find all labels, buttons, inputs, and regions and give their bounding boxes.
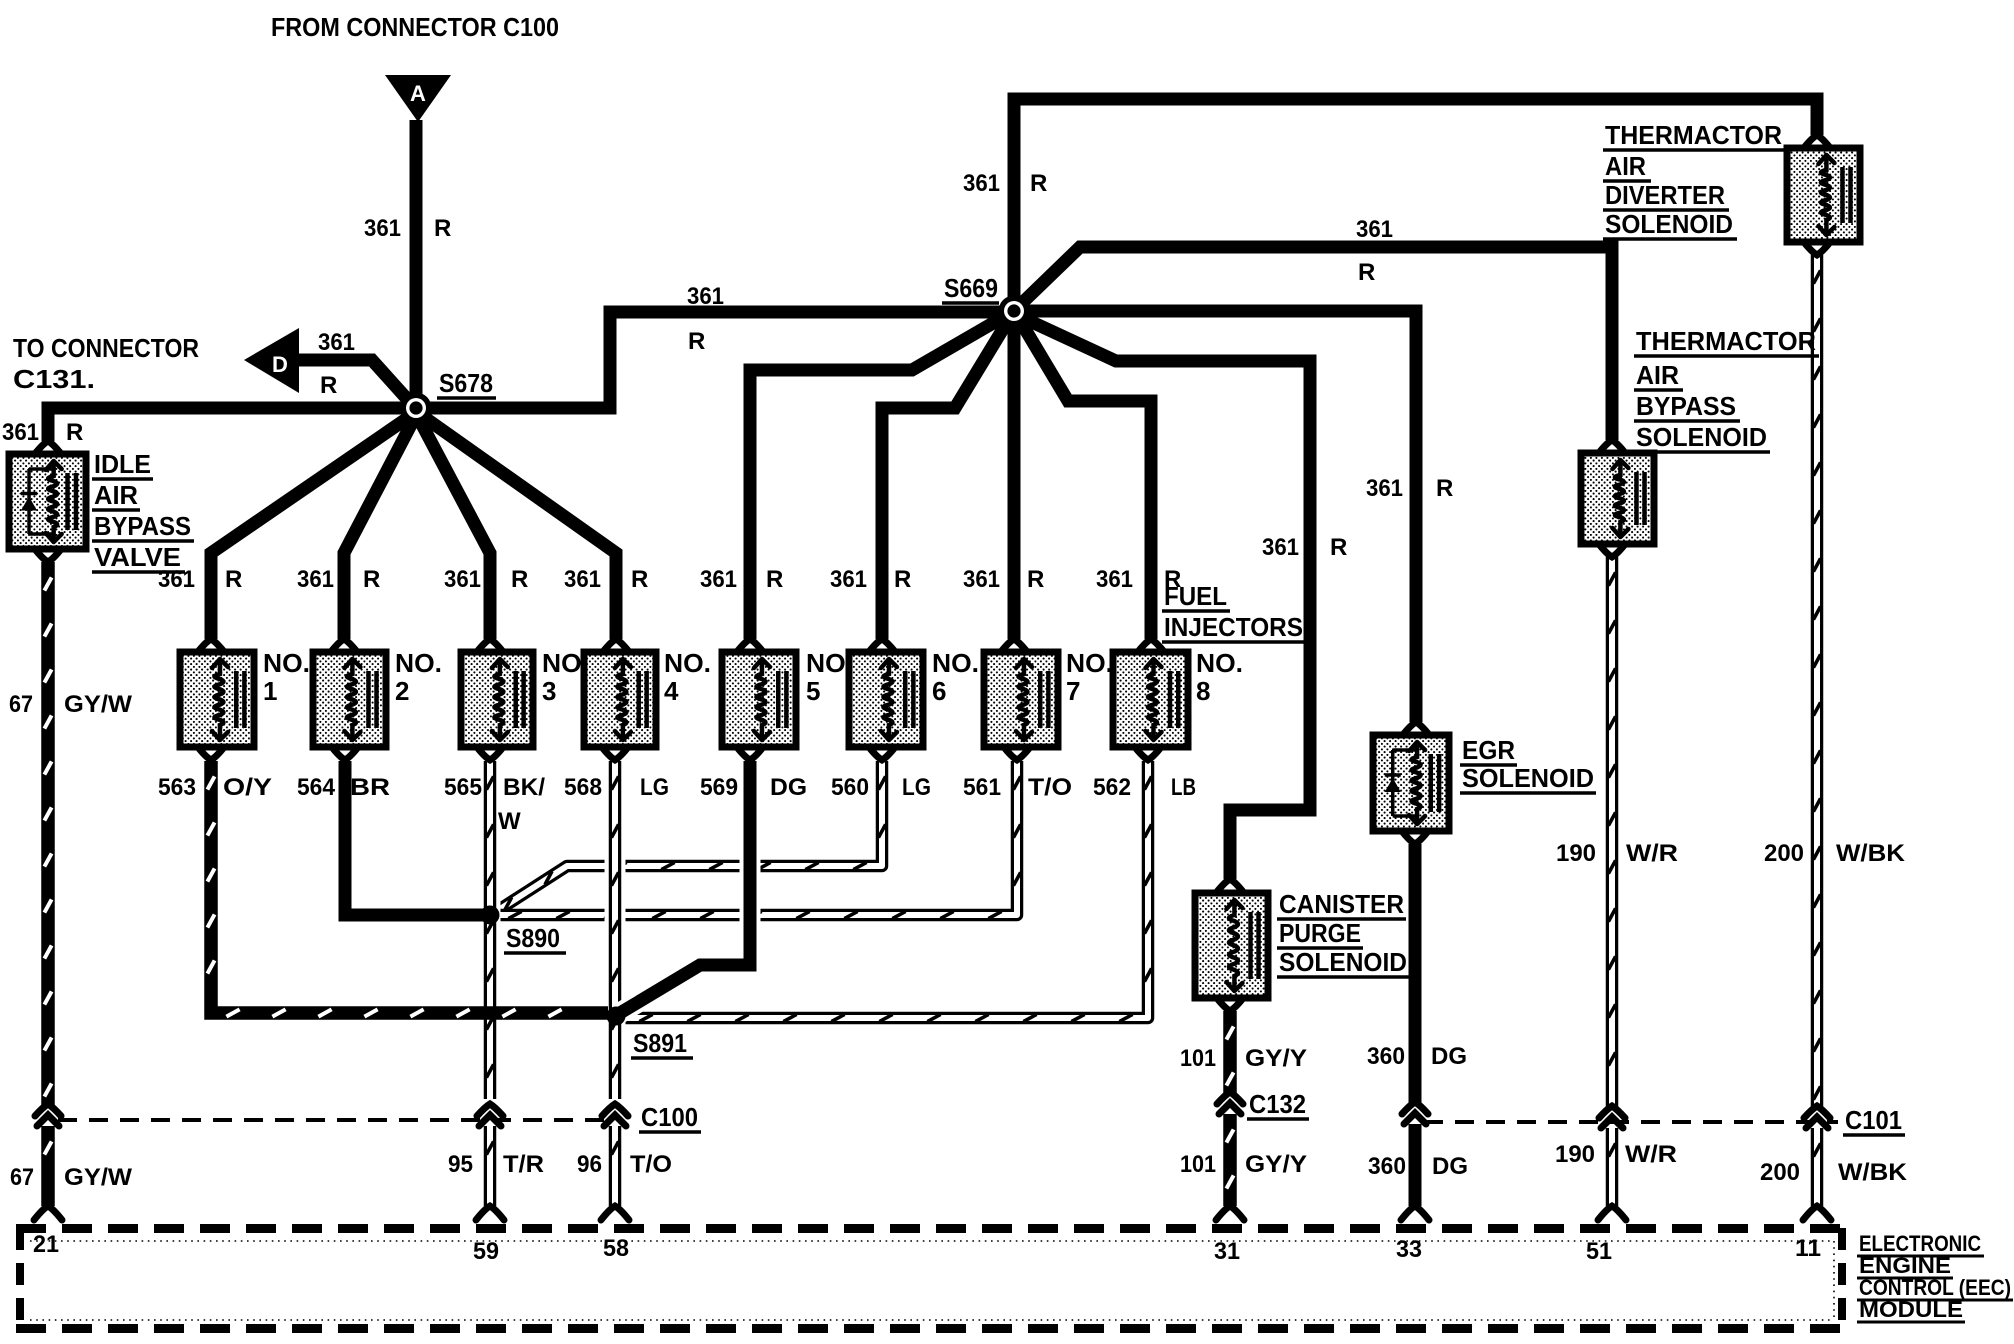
svg-text:T/O: T/O — [1028, 774, 1072, 801]
connector symbol below injector 8 — [1134, 746, 1162, 760]
svg-text:THERMACTOR: THERMACTOR — [1636, 326, 1816, 356]
svg-text:BR: BR — [350, 774, 390, 801]
connector C101 junction on wire 190 — [1599, 1106, 1625, 1118]
svg-text:SOLENOID: SOLENOID — [1605, 209, 1733, 239]
svg-text:361: 361 — [2, 419, 39, 446]
svg-text:NO.: NO. — [1066, 648, 1113, 678]
svg-text:AIR: AIR — [1636, 360, 1679, 390]
svg-text:S678: S678 — [439, 368, 493, 398]
svg-text:95: 95 — [448, 1151, 473, 1178]
svg-text:C100: C100 — [641, 1102, 698, 1132]
svg-text:R: R — [766, 566, 783, 593]
connector symbol at idle air bypass valve top — [34, 441, 62, 455]
svg-text:LG: LG — [902, 774, 931, 801]
svg-text:67: 67 — [9, 691, 33, 718]
svg-text:R: R — [894, 566, 911, 593]
svg-text:SOLENOID: SOLENOID — [1462, 763, 1594, 793]
connector symbol below injector 3 — [476, 746, 504, 760]
svg-text:W/BK: W/BK — [1836, 840, 1906, 867]
wire 67 GY/W below connector C100 to EEC pin 21 — [41, 1126, 55, 1206]
wire 200 W/BK below connector C101 to EEC pin 11 — [1811, 1128, 1824, 1206]
wire 361 R feed to injector 3 — [419, 419, 490, 639]
connector symbol below canister purge solenoid — [1216, 997, 1244, 1011]
canister purge solenoid — [1195, 893, 1268, 998]
connector symbol wire 95 into EEC — [476, 1206, 504, 1220]
connector symbol at thermactor air diverter solenoid top — [1803, 135, 1831, 149]
svg-text:IDLE: IDLE — [94, 449, 151, 479]
svg-text:569: 569 — [700, 774, 738, 801]
svg-text:R: R — [1358, 259, 1375, 286]
fuel injector NO.4 — [584, 652, 656, 747]
svg-text:NO.: NO. — [806, 648, 853, 678]
svg-text:GY/W: GY/W — [64, 691, 132, 718]
connector C101 dashed boundary line — [1424, 1120, 1838, 1124]
connector C101 junction on wire 200 — [1804, 1106, 1830, 1118]
svg-text:3: 3 — [542, 676, 556, 706]
fuel injector NO.8 — [1113, 652, 1188, 747]
svg-text:361: 361 — [364, 215, 401, 242]
connector symbol below EGR solenoid — [1401, 830, 1429, 844]
svg-text:S669: S669 — [944, 273, 998, 303]
svg-text:R: R — [434, 215, 451, 242]
svg-text:51: 51 — [1586, 1238, 1612, 1265]
svg-text:8: 8 — [1196, 676, 1210, 706]
connector symbol at injector 8 top — [1137, 639, 1165, 653]
svg-text:96: 96 — [577, 1151, 602, 1178]
wire 561 T/O from injector 7 to splice S890 — [496, 761, 1017, 915]
svg-text:67: 67 — [10, 1164, 34, 1191]
svg-text:SOLENOID: SOLENOID — [1636, 422, 1767, 452]
svg-text:DG: DG — [1431, 1043, 1467, 1070]
svg-text:S891: S891 — [633, 1028, 687, 1058]
svg-text:INJECTORS: INJECTORS — [1164, 612, 1303, 642]
electronic engine control EEC module box — [16, 1224, 1846, 1233]
connector symbol wire 360 into EEC — [1401, 1206, 1429, 1220]
svg-text:W/R: W/R — [1626, 840, 1678, 867]
svg-text:560: 560 — [831, 774, 869, 801]
fuel injector NO.5 — [722, 652, 796, 747]
svg-text:LG: LG — [640, 774, 669, 801]
svg-text:TO CONNECTOR: TO CONNECTOR — [13, 333, 199, 363]
connector C101 junction on wire 360 — [1402, 1102, 1428, 1114]
connector C132 junction on wire 101 — [1217, 1092, 1243, 1104]
svg-text:FROM CONNECTOR C100: FROM CONNECTOR C100 — [271, 12, 559, 42]
connector symbol at EGR solenoid top — [1402, 722, 1430, 736]
connector C100 junction on wire 96 — [602, 1104, 628, 1116]
svg-text:5: 5 — [806, 676, 820, 706]
connector symbol at injector 7 top — [1000, 639, 1028, 653]
wire 96 T/O below connector C100 to EEC pin 58 — [609, 1126, 622, 1206]
svg-text:W/BK: W/BK — [1838, 1159, 1908, 1186]
fuel injector NO.7 — [984, 652, 1058, 747]
connector symbol below injector 1 — [197, 746, 225, 760]
wire 361 R from splice S678 left to idle air bypass valve — [48, 408, 416, 441]
wire 95 T/R below connector C100 to EEC pin 59 — [484, 1126, 497, 1206]
wire 200 W/BK from thermactor air diverter solenoid to connector C101 — [1811, 255, 1824, 1108]
svg-text:361: 361 — [1356, 216, 1393, 243]
svg-text:GY/Y: GY/Y — [1245, 1151, 1307, 1178]
svg-text:BYPASS: BYPASS — [1636, 391, 1736, 421]
connector symbol at injector 2 top — [330, 639, 358, 653]
connector symbol below injector 4 — [601, 746, 629, 760]
connector symbol at injector 1 top — [197, 639, 225, 653]
svg-text:59: 59 — [473, 1238, 499, 1265]
connector symbol wire 190 into EEC — [1598, 1206, 1626, 1220]
svg-text:DG: DG — [770, 774, 807, 801]
svg-text:7: 7 — [1066, 676, 1080, 706]
connector symbol wire 67 into EEC — [34, 1206, 62, 1220]
connector D to connector C131 — [244, 328, 299, 393]
svg-text:11: 11 — [1795, 1235, 1821, 1262]
wire 361 R from connector A down to splice S678 — [410, 120, 423, 408]
svg-text:BK/: BK/ — [503, 774, 545, 801]
svg-text:561: 561 — [963, 774, 1001, 801]
connector C100 junction on wire 67 — [35, 1104, 61, 1116]
connector symbol below injector 5 — [736, 746, 764, 760]
svg-text:R: R — [225, 566, 242, 593]
connector symbol below idle air bypass valve — [34, 548, 62, 562]
svg-text:361: 361 — [297, 566, 334, 593]
svg-text:R: R — [363, 566, 380, 593]
wire 560 LG from injector 6 to splice S890 — [494, 761, 882, 913]
connector symbol below thermactor air diverter solenoid — [1803, 241, 1831, 255]
svg-text:564: 564 — [297, 774, 336, 801]
splice S891 junction dot — [607, 1007, 626, 1026]
wire 361 R feed to injector 6 — [882, 319, 1009, 639]
svg-text:PURGE: PURGE — [1279, 918, 1361, 948]
svg-text:1: 1 — [263, 676, 277, 706]
svg-text:R: R — [511, 566, 528, 593]
svg-text:360: 360 — [1367, 1043, 1405, 1070]
svg-text:101: 101 — [1180, 1045, 1216, 1072]
wire 360 DG below connector C101 to EEC pin 33 — [1409, 1124, 1422, 1206]
connector C100 dashed boundary line — [58, 1118, 612, 1122]
wire 564 BR from injector 2 to splice S890 — [345, 761, 484, 915]
svg-text:190: 190 — [1555, 1141, 1595, 1168]
svg-text:361: 361 — [318, 329, 355, 356]
svg-text:NO.: NO. — [1196, 648, 1243, 678]
svg-text:W/R: W/R — [1625, 1141, 1677, 1168]
wire 361 R linking splice S678 to splice S669 — [416, 312, 1014, 408]
wire 190 W/R below connector C101 to EEC pin 51 — [1606, 1128, 1619, 1206]
svg-text:361: 361 — [687, 283, 724, 310]
fuel injector NO.1 — [180, 652, 254, 747]
svg-text:31: 31 — [1214, 1238, 1240, 1265]
wire 190 W/R from thermactor air bypass solenoid to connector C101 — [1606, 557, 1619, 1108]
idle air bypass valve — [9, 454, 86, 549]
svg-text:NO.: NO. — [263, 648, 310, 678]
svg-text:33: 33 — [1396, 1236, 1422, 1263]
svg-text:AIR: AIR — [94, 480, 138, 510]
svg-text:C132: C132 — [1249, 1089, 1306, 1119]
svg-text:FUEL: FUEL — [1164, 581, 1227, 611]
wire 361 R from splice S669 to thermactor air bypass solenoid — [1020, 247, 1612, 440]
svg-text:R: R — [1030, 170, 1047, 197]
connector symbol at thermactor air bypass solenoid top — [1598, 440, 1626, 454]
wire 101 GY/Y from canister purge solenoid to connector C132 — [1223, 1011, 1237, 1094]
svg-text:R: R — [1436, 475, 1453, 502]
svg-text:200: 200 — [1760, 1159, 1800, 1186]
splice S890 junction dot — [481, 906, 500, 925]
svg-text:DG: DG — [1432, 1153, 1468, 1180]
svg-text:565: 565 — [444, 774, 482, 801]
svg-text:NO.: NO. — [932, 648, 979, 678]
fuel injector NO.2 — [313, 652, 386, 747]
thermactor air bypass solenoid — [1581, 453, 1654, 544]
connector symbol at injector 3 top — [476, 639, 504, 653]
wire 562 LB from injector 8 to splice S891 — [622, 761, 1148, 1018]
connector symbol below injector 2 — [331, 746, 359, 760]
fuel injector NO.6 — [849, 652, 923, 747]
svg-text:R: R — [631, 566, 648, 593]
svg-text:D: D — [272, 352, 288, 377]
splice S669 — [999, 296, 1030, 327]
svg-text:361: 361 — [963, 170, 1000, 197]
svg-text:NO.: NO. — [664, 648, 711, 678]
svg-text:R: R — [320, 372, 337, 399]
svg-text:DIVERTER: DIVERTER — [1605, 180, 1725, 210]
svg-text:W: W — [498, 808, 521, 835]
svg-text:58: 58 — [603, 1235, 629, 1262]
svg-text:361: 361 — [963, 566, 1000, 593]
svg-text:BYPASS: BYPASS — [94, 511, 191, 541]
wire 361 R feed to injector 1 — [211, 415, 412, 639]
EGR solenoid — [1373, 735, 1449, 831]
svg-text:SOLENOID: SOLENOID — [1279, 947, 1407, 977]
connector symbol at injector 4 top — [602, 639, 630, 653]
svg-text:R: R — [66, 419, 83, 446]
svg-text:190: 190 — [1556, 840, 1596, 867]
svg-text:NO.: NO. — [542, 648, 589, 678]
svg-text:C131.: C131. — [13, 364, 95, 394]
svg-text:101: 101 — [1180, 1151, 1216, 1178]
wire 568 LG from injector 4 through splice S891 becoming wire 96 T/O — [605, 761, 626, 1099]
svg-text:A: A — [410, 81, 426, 106]
connector symbol at injector 6 top — [868, 639, 896, 653]
svg-text:R: R — [688, 328, 705, 355]
svg-text:VALVE: VALVE — [94, 542, 181, 572]
svg-text:562: 562 — [1093, 774, 1131, 801]
connector C100 junction on wire 95 — [477, 1104, 503, 1116]
svg-text:THERMACTOR: THERMACTOR — [1605, 120, 1782, 150]
wire 361 R from splice S669 to thermactor air diverter solenoid — [1014, 99, 1817, 311]
wire 361 R feed to injector 2 — [344, 419, 414, 639]
svg-text:563: 563 — [158, 774, 196, 801]
thermactor air diverter solenoid — [1787, 148, 1860, 242]
svg-text:T/O: T/O — [630, 1151, 672, 1178]
svg-text:GY/Y: GY/Y — [1245, 1045, 1307, 1072]
connector symbol at injector 5 top — [736, 639, 764, 653]
wire 361 R from splice S669 to canister purge solenoid — [1021, 317, 1310, 879]
connector symbol below thermactor air bypass solenoid — [1598, 543, 1626, 557]
connector symbol wire 200 into EEC — [1803, 1206, 1831, 1220]
svg-text:200: 200 — [1764, 840, 1804, 867]
splice S678 — [401, 393, 432, 424]
svg-text:CANISTER: CANISTER — [1279, 889, 1404, 919]
wire 361 R feed to injector 5 — [750, 315, 1007, 639]
wire 563 O/Y from injector 1 to splice S891 — [211, 761, 608, 1013]
fuel injector NO.3 — [461, 652, 533, 747]
svg-text:AIR: AIR — [1605, 151, 1646, 181]
svg-text:EGR: EGR — [1462, 735, 1515, 765]
wire 361 R from splice S678 to connector D — [299, 360, 408, 400]
svg-text:NO.: NO. — [395, 648, 442, 678]
connector symbol below injector 6 — [868, 746, 896, 760]
connector A from connector C100 — [385, 75, 451, 122]
svg-text:O/Y: O/Y — [223, 774, 272, 801]
wire 361 R feed to injector 4 — [421, 415, 616, 639]
svg-text:360: 360 — [1368, 1153, 1406, 1180]
svg-text:C101: C101 — [1845, 1105, 1902, 1135]
svg-text:T/R: T/R — [503, 1151, 544, 1178]
svg-text:361: 361 — [444, 566, 481, 593]
svg-text:6: 6 — [932, 676, 946, 706]
connector symbol wire 101 into EEC — [1216, 1206, 1244, 1220]
svg-text:R: R — [1027, 566, 1044, 593]
wire 101 GY/Y below connector C132 to EEC pin 31 — [1223, 1114, 1237, 1206]
svg-text:361: 361 — [830, 566, 867, 593]
wire 361 R feed to injector 7 — [1008, 311, 1021, 639]
wire 67 GY/W from idle air bypass valve to connector C100 — [41, 562, 55, 1106]
connector symbol wire 96 into EEC — [601, 1206, 629, 1220]
svg-text:361: 361 — [564, 566, 601, 593]
wire 361 R from splice S669 to EGR solenoid — [1014, 311, 1416, 722]
connector symbol at canister purge solenoid top — [1216, 879, 1244, 893]
wire 569 DG from injector 5 to splice S891 — [620, 761, 750, 1013]
svg-text:361: 361 — [1262, 534, 1299, 561]
svg-text:21: 21 — [33, 1231, 59, 1258]
svg-text:R: R — [1330, 534, 1347, 561]
wire 565 BK/W from injector 3 through splice S890 becoming wire 95 T/R — [480, 761, 501, 1099]
svg-text:GY/W: GY/W — [64, 1164, 132, 1191]
wire 361 R feed to injector 8 — [1019, 319, 1151, 639]
connector symbol below injector 7 — [1003, 746, 1031, 760]
svg-text:361: 361 — [1366, 475, 1403, 502]
svg-text:4: 4 — [664, 676, 679, 706]
svg-text:S890: S890 — [506, 923, 560, 953]
svg-text:361: 361 — [700, 566, 737, 593]
svg-text:2: 2 — [395, 676, 409, 706]
wire 360 DG from EGR solenoid to connector C101 — [1409, 844, 1422, 1104]
svg-text:568: 568 — [564, 774, 602, 801]
svg-text:LB: LB — [1171, 774, 1196, 801]
svg-text:361: 361 — [1096, 566, 1133, 593]
